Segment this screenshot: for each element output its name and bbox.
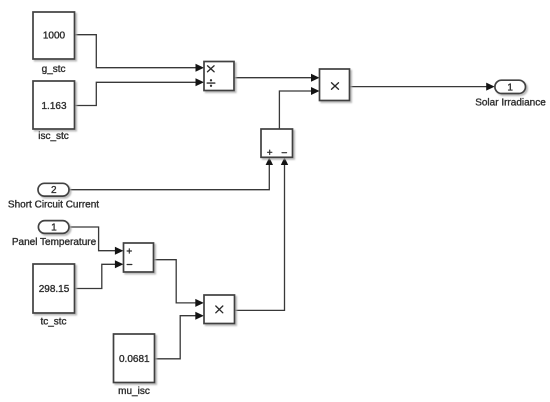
svg-text:tc_stc: tc_stc [40, 316, 66, 327]
svg-text:1: 1 [507, 82, 513, 93]
svg-text:Panel Temperature: Panel Temperature [12, 237, 97, 248]
svg-text:Solar Irradiance: Solar Irradiance [475, 97, 546, 108]
svg-text:mu_isc: mu_isc [118, 386, 150, 397]
svg-text:1.163: 1.163 [41, 101, 66, 112]
svg-text:0.0681: 0.0681 [119, 354, 150, 365]
svg-text:isc_stc: isc_stc [38, 131, 69, 142]
svg-text:1: 1 [51, 223, 57, 234]
svg-text:298.15: 298.15 [39, 284, 70, 295]
svg-text:2: 2 [51, 185, 57, 196]
svg-text:1000: 1000 [43, 30, 66, 41]
svg-text:Short Circuit Current: Short Circuit Current [8, 199, 99, 210]
svg-text:g_stc: g_stc [42, 64, 66, 75]
